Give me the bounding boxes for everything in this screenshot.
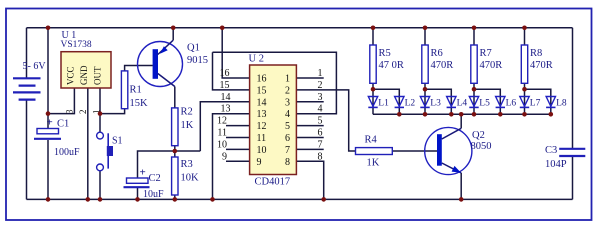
node Q2 collector bus — [459, 112, 464, 117]
wire R4 to Q2 base — [392, 150, 437, 152]
svg-text:12: 12 — [217, 116, 227, 127]
wire top supply rail — [27, 27, 573, 29]
resistor R8 — [525, 28, 551, 115]
wire Q2 collector riser to LED bus — [460, 114, 462, 128]
LED L5 — [469, 97, 478, 108]
node R5 rail — [371, 26, 376, 31]
resistor R1 — [121, 71, 127, 109]
svg-text:15: 15 — [257, 85, 267, 96]
node R5 anode — [371, 87, 376, 92]
svg-text:1K: 1K — [181, 120, 194, 131]
svg-text:R5: R5 — [379, 48, 391, 59]
svg-text:470R: 470R — [480, 60, 503, 71]
node L3 bus — [423, 112, 428, 117]
resistor R6 — [425, 28, 451, 115]
svg-text:8: 8 — [318, 151, 323, 162]
node pin8 ground — [321, 197, 326, 202]
svg-text:7: 7 — [285, 145, 290, 156]
node C1 VCC tap — [46, 111, 51, 116]
svg-text:100uF: 100uF — [54, 147, 80, 158]
svg-text:4: 4 — [318, 104, 323, 115]
svg-text:470R: 470R — [431, 60, 454, 71]
wire C1 column from top rail — [47, 28, 49, 128]
svg-text:Q1: Q1 — [187, 43, 200, 54]
wire U2 pin16 to top rail — [222, 28, 249, 78]
transistor Q2 8050 NPN — [425, 127, 472, 174]
U2 outside right pin numbers — [318, 68, 323, 162]
LED L2 — [395, 97, 404, 108]
svg-text:3: 3 — [285, 97, 290, 108]
svg-text:15K: 15K — [130, 98, 149, 109]
wire stub pin6 — [296, 137, 323, 139]
svg-text:S1: S1 — [112, 136, 123, 147]
node R7 anode — [472, 87, 477, 92]
svg-text:L5: L5 — [479, 99, 490, 109]
svg-text:U 2: U 2 — [249, 54, 264, 65]
wire junction riser to U2 pin14 — [200, 102, 249, 151]
wire S1 bottom to ground — [99, 171, 101, 199]
node C2 ground — [135, 197, 140, 202]
svg-text:+: + — [47, 117, 53, 129]
svg-text:L3: L3 — [430, 99, 441, 109]
svg-text:R7: R7 — [480, 48, 492, 59]
LED L7 — [520, 97, 529, 108]
svg-text:10: 10 — [257, 145, 267, 156]
wire stub pin11 — [226, 137, 250, 139]
node Q2 emitter ground — [459, 197, 464, 202]
IC U2 CD4017 — [250, 65, 297, 175]
svg-text:Q2: Q2 — [472, 130, 485, 141]
svg-text:12: 12 — [257, 121, 267, 132]
node OUT S1 tap — [98, 111, 103, 116]
U1 pin numbers 3 2 1 — [65, 109, 102, 114]
wire stub pin10 — [226, 148, 250, 150]
U2 inside pin numbers — [257, 74, 291, 168]
wire R3 bottom to ground — [174, 195, 176, 199]
wire node VCC feed (C1 + to U1 pin3) — [48, 88, 74, 114]
svg-text:470R: 470R — [530, 60, 553, 71]
svg-text:3: 3 — [318, 92, 323, 103]
wire bottom ground rail — [27, 198, 573, 200]
svg-text:R4: R4 — [365, 135, 378, 146]
wire R2 bottom to junction — [174, 146, 176, 157]
svg-text:C2: C2 — [149, 173, 161, 184]
svg-text:VS1738: VS1738 — [61, 40, 92, 50]
svg-text:16: 16 — [220, 68, 230, 79]
IR receiver U1 VS1738 — [61, 52, 111, 88]
svg-text:16: 16 — [257, 74, 267, 85]
node L6 bus — [498, 112, 503, 117]
node R3 ground — [173, 197, 178, 202]
node R8 anode — [522, 87, 527, 92]
node pin13 ground — [210, 197, 215, 202]
svg-text:2: 2 — [78, 110, 88, 115]
svg-text:1: 1 — [318, 68, 323, 79]
node L2 bus — [397, 112, 402, 117]
svg-text:5- 6V: 5- 6V — [23, 61, 47, 72]
node S1 ground — [98, 197, 103, 202]
node R8 rail — [522, 26, 527, 31]
svg-text:C1: C1 — [57, 119, 69, 130]
svg-text:VCC: VCC — [66, 66, 76, 85]
svg-text:R8: R8 — [530, 48, 542, 59]
svg-text:15: 15 — [220, 80, 230, 91]
wire right column to C3 top — [572, 28, 574, 148]
capacitor C3 — [559, 149, 585, 156]
resistor R4 — [356, 148, 393, 155]
node L7 bus — [522, 112, 527, 117]
svg-text:47 0R: 47 0R — [379, 60, 404, 71]
node L4 bus — [449, 112, 454, 117]
battery B1 5-6V — [13, 78, 41, 99]
U2 outside left pin numbers — [217, 68, 231, 162]
node R6 rail — [423, 26, 428, 31]
wire U2 pin15 riser — [213, 52, 250, 90]
svg-text:8050: 8050 — [471, 141, 492, 152]
wire pin15 to pin4 link — [213, 52, 337, 113]
resistor R7 — [474, 28, 500, 115]
svg-text:L6: L6 — [506, 99, 517, 109]
svg-text:6: 6 — [285, 133, 290, 144]
svg-text:14: 14 — [257, 97, 267, 108]
svg-text:L8: L8 — [556, 99, 567, 109]
node pin16 rail — [220, 26, 225, 31]
switch S1 — [97, 132, 109, 171]
svg-text:3: 3 — [65, 109, 75, 114]
wire R1 top to Q1 base — [125, 66, 153, 71]
svg-text:10uF: 10uF — [143, 189, 164, 200]
node R6 anode — [423, 87, 428, 92]
svg-text:R1: R1 — [130, 85, 142, 96]
LED L4 — [447, 97, 456, 108]
svg-text:10K: 10K — [181, 173, 200, 184]
svg-text:R2: R2 — [181, 107, 193, 118]
svg-text:4: 4 — [285, 109, 290, 120]
node Q1 emitter rail — [171, 26, 176, 31]
svg-text:13: 13 — [257, 109, 267, 120]
svg-text:8: 8 — [285, 157, 290, 168]
wire Q1 emitter riser from top rail — [172, 28, 174, 40]
svg-text:1K: 1K — [367, 158, 380, 169]
node R2 R3 junction — [173, 149, 178, 154]
svg-text:L4: L4 — [457, 99, 468, 109]
svg-text:7: 7 — [318, 139, 323, 150]
svg-text:R3: R3 — [181, 159, 193, 170]
wire U2 pin13 to ground — [213, 114, 250, 200]
wire stub pin9 — [226, 160, 250, 162]
wire Q2 emitter to ground — [460, 173, 462, 200]
svg-text:R6: R6 — [431, 48, 443, 59]
wire LED cathode bus — [373, 113, 551, 115]
wire OUT node to R1 bottom — [100, 109, 125, 114]
svg-text:L7: L7 — [530, 99, 541, 109]
LED L8 — [546, 97, 555, 108]
svg-text:OUT: OUT — [93, 66, 103, 85]
svg-text:104P: 104P — [545, 159, 567, 170]
svg-text:14: 14 — [221, 92, 231, 103]
wire U2 pin2 to R4 — [296, 90, 355, 151]
svg-text:2: 2 — [285, 85, 290, 96]
svg-text:2: 2 — [318, 80, 323, 91]
node GND pin ground — [86, 197, 91, 202]
capacitor C1 — [34, 129, 61, 139]
node C1 top rail — [46, 26, 51, 31]
node L5 bus — [472, 112, 477, 117]
capacitor C2 — [124, 178, 150, 187]
node L8 bus — [549, 112, 554, 117]
wire stub pin5 — [296, 125, 323, 127]
svg-text:9: 9 — [222, 151, 227, 162]
svg-text:11: 11 — [217, 128, 227, 139]
wire battery top lead — [26, 28, 28, 78]
wire stub pin3 — [296, 101, 323, 103]
svg-text:CD4017: CD4017 — [255, 177, 291, 188]
svg-text:L2: L2 — [405, 99, 416, 109]
svg-text:L1: L1 — [378, 99, 389, 109]
wire U1 pin1 OUT down — [99, 88, 101, 132]
wire junction to C2 top — [138, 151, 201, 178]
resistor R5 — [373, 28, 399, 115]
wire stub pin12 — [226, 125, 250, 127]
svg-text:+: + — [140, 167, 146, 179]
svg-text:1: 1 — [285, 74, 290, 85]
svg-text:C3: C3 — [545, 145, 557, 156]
wire stub pin7 — [296, 148, 323, 150]
node R7 rail — [472, 26, 477, 31]
wire C1 bottom to ground — [47, 140, 49, 199]
node C1 ground — [46, 197, 51, 202]
resistor R2 — [172, 108, 178, 146]
wire right column C3 bottom to ground — [572, 157, 574, 200]
wire U1 pin2 GND to ground rail — [87, 88, 89, 199]
wire U2 pin8 to ground — [296, 161, 323, 199]
wire battery bottom lead — [26, 100, 28, 199]
svg-text:6: 6 — [318, 128, 323, 139]
wire stub pin1 — [296, 77, 323, 79]
LED L3 — [420, 97, 429, 108]
svg-text:13: 13 — [221, 104, 231, 115]
wire C2 bottom to ground — [137, 188, 139, 199]
resistor R3 — [172, 157, 178, 195]
svg-text:9: 9 — [257, 157, 262, 168]
svg-text:10: 10 — [217, 139, 227, 150]
LED L1 — [368, 97, 377, 108]
svg-text:5: 5 — [318, 116, 323, 127]
svg-text:9015: 9015 — [187, 55, 208, 66]
svg-text:5: 5 — [285, 121, 290, 132]
transistor Q1 9015 PNP — [138, 40, 183, 86]
LED L6 — [496, 97, 505, 108]
svg-text:GND: GND — [79, 65, 89, 85]
wire Q1 collector to R2 — [174, 87, 176, 108]
svg-text:11: 11 — [257, 133, 267, 144]
